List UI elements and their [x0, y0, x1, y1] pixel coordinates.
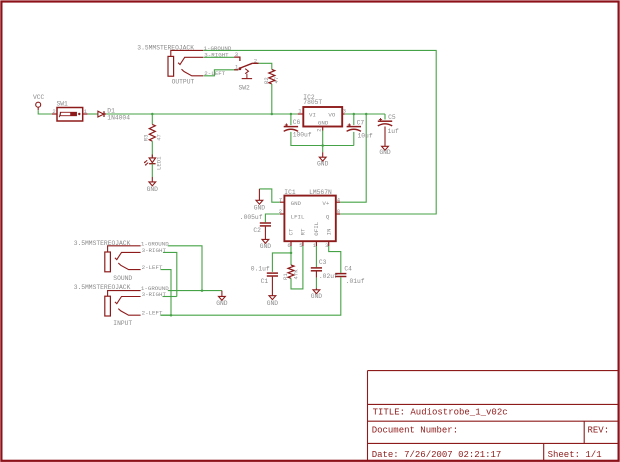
- svg-text:R3: R3: [143, 134, 150, 141]
- svg-text:LED1: LED1: [156, 156, 163, 170]
- node junction input net: [170, 314, 173, 317]
- svg-text:47: 47: [273, 77, 280, 84]
- svg-text:C1: C1: [261, 278, 269, 285]
- svg-text:IN: IN: [325, 228, 332, 235]
- diode D1 1N4004: [98, 107, 130, 121]
- svg-text:Document Number:: Document Number:: [372, 426, 458, 436]
- svg-text:1uf: 1uf: [388, 128, 400, 135]
- ground for jacks: [216, 291, 228, 308]
- svg-text:VCC: VCC: [33, 94, 45, 101]
- wire IC2 GND pin down: [322, 131, 324, 153]
- wire R1 bottom to RT pin 5: [291, 246, 303, 289]
- svg-text:INPUT: INPUT: [113, 320, 132, 327]
- resistor R1 47K: [282, 265, 299, 280]
- svg-text:3: 3: [325, 242, 328, 249]
- ground below C1: [267, 277, 279, 308]
- ground below C3: [311, 288, 323, 300]
- svg-text:Sheet: 1/1: Sheet: 1/1: [548, 450, 602, 460]
- svg-text:C3: C3: [319, 259, 327, 266]
- node junction rail/R2: [271, 113, 274, 116]
- svg-text:47K: 47K: [292, 269, 299, 280]
- wire IC1 GND pin 7: [259, 189, 280, 202]
- svg-text:GND: GND: [317, 160, 329, 167]
- voltage regulator IC2 7805T: [298, 94, 346, 132]
- wire INPUT pin 1 to ground: [168, 290, 222, 292]
- svg-text:2: 2: [316, 129, 322, 132]
- ground below IC2: [317, 152, 329, 167]
- svg-text:2-LEFT: 2-LEFT: [142, 264, 163, 271]
- svg-text:100uf: 100uf: [293, 132, 312, 139]
- svg-text:IC1: IC1: [284, 189, 296, 196]
- svg-text:C7: C7: [357, 119, 365, 126]
- svg-text:3: 3: [235, 51, 238, 58]
- wire rail to C6: [290, 114, 292, 125]
- svg-text:C2: C2: [253, 227, 261, 234]
- wire SW1 to D1: [88, 113, 98, 115]
- wire SW2 throw 2 to R2: [259, 63, 272, 69]
- svg-text:GND: GND: [291, 200, 302, 207]
- svg-text:GND: GND: [260, 243, 272, 250]
- wire rail to R3: [151, 114, 153, 124]
- svg-text:6: 6: [287, 242, 290, 249]
- node junction GND net: [321, 144, 324, 147]
- svg-text:.02uf: .02uf: [319, 273, 338, 280]
- svg-text:.005uf: .005uf: [240, 214, 263, 221]
- wire IC1 LFIL pin 2 to C2: [265, 214, 280, 222]
- svg-text:10uf: 10uf: [358, 132, 373, 139]
- connector OUTPUT 3.5mm stereo jack: [137, 44, 232, 85]
- connector INPUT 3.5mm stereo jack: [74, 284, 170, 327]
- wire C4 to input net: [160, 277, 340, 315]
- svg-text:OFIL: OFIL: [313, 221, 320, 235]
- svg-text:CT: CT: [288, 228, 295, 235]
- LED LED1: [144, 155, 163, 171]
- capacitor C6 100uf: [284, 119, 312, 138]
- node junction CT net: [290, 252, 293, 255]
- wire C6 bottom to GND net: [291, 132, 354, 146]
- wire IC1 OFIL pin 1 to C3: [315, 246, 317, 267]
- svg-text:TITLE: Audiostrobe_1_v02c: TITLE: Audiostrobe_1_v02c: [373, 408, 508, 418]
- wire LED1 to ground: [151, 164, 153, 177]
- svg-text:GND: GND: [318, 120, 329, 127]
- svg-text:GND: GND: [311, 293, 323, 300]
- wire VO to C7: [353, 114, 355, 125]
- wire CT junction down to R1: [290, 253, 292, 265]
- switch SW1: [52, 101, 88, 121]
- svg-text:7805T: 7805T: [303, 99, 322, 106]
- svg-text:0.1uf: 0.1uf: [251, 265, 270, 272]
- wire OUTPUT jack pin 3 to SW2 throw 3: [204, 56, 235, 58]
- wire VO to IC1 V+: [340, 114, 366, 202]
- svg-text:2-LEFT: 2-LEFT: [142, 310, 163, 317]
- svg-text:3.5MMSTEREOJACK: 3.5MMSTEREOJACK: [137, 44, 194, 51]
- IC IC1 LM567N tone decoder: [279, 189, 341, 249]
- svg-text:D1: D1: [107, 107, 115, 114]
- wire R3 to LED1: [151, 141, 153, 157]
- capacitor C2 .005uf: [240, 214, 271, 234]
- capacitor C4 .01uf: [335, 266, 365, 285]
- capacitor C7 10uf: [347, 119, 373, 139]
- svg-text:OUTPUT: OUTPUT: [172, 78, 195, 85]
- resistor R3 47: [143, 124, 163, 141]
- svg-text:Date: 7/26/2007 02:21:17: Date: 7/26/2007 02:21:17: [372, 450, 502, 460]
- title block: [368, 371, 619, 461]
- svg-text:2: 2: [254, 57, 257, 64]
- svg-text:3-RIGHT: 3-RIGHT: [142, 247, 167, 254]
- wire OUTPUT jack pin 1 to IC1 Q (net): [203, 50, 436, 214]
- ground below LED1: [147, 177, 159, 193]
- svg-text:C6: C6: [293, 119, 301, 126]
- svg-text:V+: V+: [322, 200, 329, 207]
- capacitor C1 0.1uf: [251, 265, 278, 285]
- wire IC1 IN pin 3 to C4: [329, 246, 341, 273]
- wire R2 to rail: [271, 84, 273, 114]
- wire VCC to SW1 pin 2: [38, 110, 52, 114]
- node junction rail/C6: [290, 113, 293, 116]
- node junction VO/C7: [353, 113, 356, 116]
- wire SOUND pin 3 to INPUT pin 3: [163, 252, 177, 296]
- ground below C2: [260, 227, 272, 250]
- wire IC2 VO rail: [345, 113, 385, 115]
- svg-text:5: 5: [299, 242, 302, 249]
- wire INPUT pin 3: [163, 296, 177, 298]
- svg-text:GND: GND: [254, 205, 266, 212]
- wire SOUND pin 1 to ground net: [168, 246, 202, 291]
- svg-text:GND: GND: [379, 149, 391, 156]
- svg-text:C5: C5: [388, 114, 396, 121]
- svg-text:1N4004: 1N4004: [107, 114, 130, 121]
- svg-text:VI: VI: [309, 111, 316, 118]
- svg-text:2: 2: [52, 108, 55, 115]
- svg-text:GND: GND: [147, 186, 159, 193]
- svg-text:3.5MMSTEREOJACK: 3.5MMSTEREOJACK: [74, 240, 131, 247]
- ground below C5: [379, 127, 391, 157]
- svg-text:REV:: REV:: [588, 426, 610, 436]
- node junction rail/R3: [151, 113, 154, 116]
- svg-text:SW1: SW1: [57, 101, 69, 108]
- svg-text:VO: VO: [328, 111, 335, 118]
- resistor R2 47: [263, 69, 280, 84]
- wire main VCC rail D1 to IC2 VI: [106, 113, 298, 115]
- svg-text:Q: Q: [326, 213, 330, 220]
- connector SOUND 3.5mm stereo jack: [74, 240, 170, 282]
- svg-text:3-RIGHT: 3-RIGHT: [142, 291, 167, 298]
- svg-text:SOUND: SOUND: [113, 275, 132, 282]
- wire SOUND pin 2 to input net: [161, 270, 172, 316]
- wire INPUT pin 2 (input net): [161, 314, 172, 316]
- capacitor C3 .02uf: [311, 259, 338, 280]
- svg-text:R1: R1: [282, 273, 289, 280]
- svg-text:SW2: SW2: [239, 85, 251, 92]
- node junction ground net: [201, 289, 204, 292]
- svg-text:LM567N: LM567N: [309, 189, 332, 196]
- svg-text:47: 47: [155, 134, 162, 141]
- svg-text:LFIL: LFIL: [291, 213, 305, 220]
- svg-text:R2: R2: [263, 77, 270, 84]
- svg-text:RT: RT: [300, 228, 307, 235]
- node junction VO/V+ branch: [365, 113, 368, 116]
- power VCC supply symbol: [33, 94, 45, 110]
- ground at IC1 pin 7: [254, 189, 266, 212]
- wire OUTPUT jack pin 2 to SW2 pole: [204, 70, 239, 76]
- svg-text:GND: GND: [216, 300, 228, 307]
- svg-text:8: 8: [337, 208, 340, 215]
- wire C3 to ground: [315, 271, 317, 288]
- wire IC1 CT pin 6 to C1/R1: [272, 246, 291, 272]
- svg-text:GND: GND: [267, 300, 279, 307]
- svg-text:3.5MMSTEREOJACK: 3.5MMSTEREOJACK: [74, 284, 131, 291]
- capacitor C5 1uf: [378, 114, 399, 135]
- switch SW2: [234, 51, 259, 91]
- svg-text:C4: C4: [344, 266, 352, 273]
- svg-text:.01uf: .01uf: [346, 278, 365, 285]
